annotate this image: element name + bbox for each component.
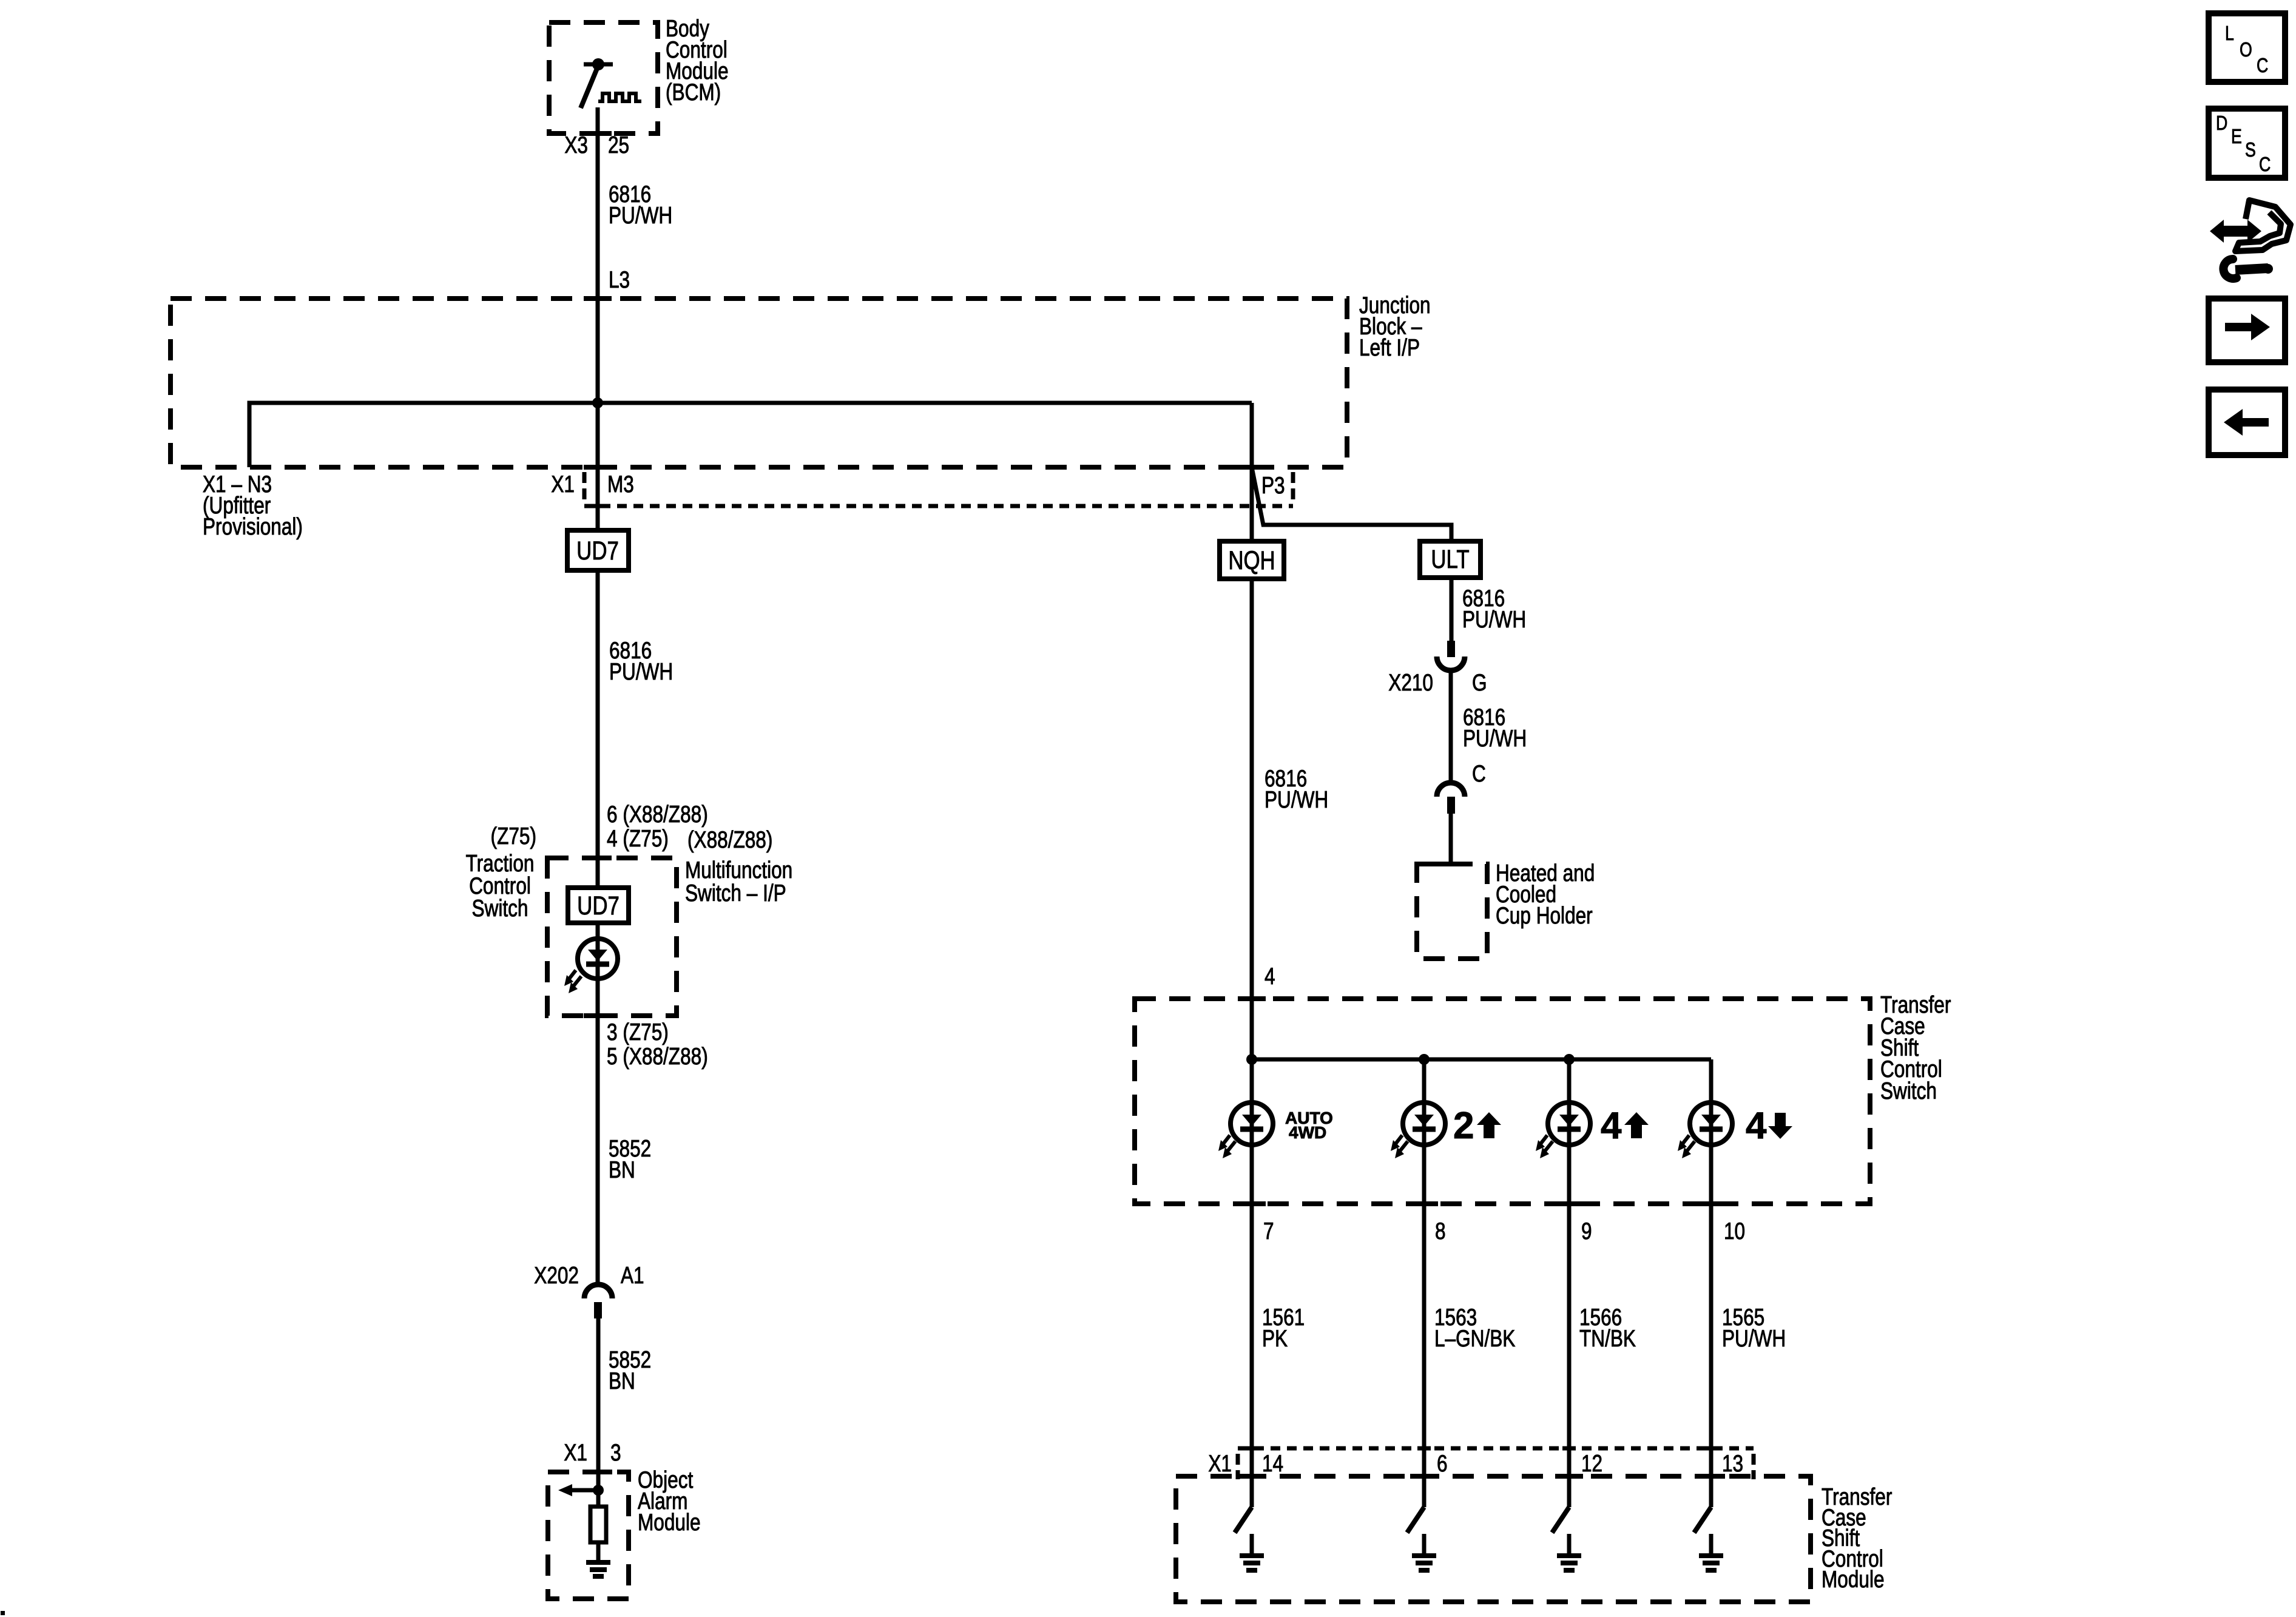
- svg-text:E: E: [2231, 126, 2242, 147]
- svg-text:Module: Module: [638, 1509, 701, 1536]
- svg-text:2: 2: [1453, 1105, 1474, 1147]
- svg-text:6: 6: [1437, 1450, 1448, 1477]
- svg-text:TN/BK: TN/BK: [1579, 1325, 1636, 1352]
- svg-text:4 (Z75): 4 (Z75): [607, 825, 669, 852]
- svg-text:C: C: [2257, 55, 2268, 76]
- svg-text:PU/WH: PU/WH: [1462, 606, 1526, 633]
- svg-text:BN: BN: [609, 1156, 635, 1183]
- svg-text:M3: M3: [607, 471, 634, 498]
- svg-text:6 (X88/Z88): 6 (X88/Z88): [607, 801, 708, 828]
- svg-text:UD7: UD7: [577, 892, 620, 920]
- svg-text:L: L: [2225, 22, 2234, 44]
- svg-text:X3: X3: [564, 132, 588, 158]
- svg-text:Left I/P: Left I/P: [1359, 334, 1420, 361]
- svg-text:Switch – I/P: Switch – I/P: [685, 880, 786, 906]
- svg-text:G: G: [1472, 669, 1487, 696]
- svg-text:3 (Z75): 3 (Z75): [607, 1019, 669, 1045]
- svg-text:(BCM): (BCM): [666, 79, 721, 106]
- svg-text:X1: X1: [551, 471, 575, 498]
- svg-text:25: 25: [608, 132, 629, 158]
- svg-text:13: 13: [1722, 1450, 1743, 1477]
- svg-text:S: S: [2245, 139, 2256, 161]
- svg-text:PU/WH: PU/WH: [609, 202, 672, 229]
- svg-text:X1: X1: [564, 1439, 587, 1466]
- svg-text:5 (X88/Z88): 5 (X88/Z88): [607, 1043, 708, 1070]
- svg-text:O: O: [2240, 39, 2252, 61]
- svg-text:NQH: NQH: [1228, 547, 1275, 575]
- svg-text:PU/WH: PU/WH: [1264, 786, 1328, 813]
- svg-text:Switch: Switch: [1880, 1078, 1937, 1104]
- svg-text:9: 9: [1581, 1218, 1592, 1244]
- svg-text:4WD: 4WD: [1289, 1123, 1326, 1142]
- svg-text:X202: X202: [534, 1262, 579, 1289]
- svg-text:ULT: ULT: [1431, 545, 1469, 574]
- svg-text:L3: L3: [609, 266, 630, 293]
- svg-text:Provisional): Provisional): [203, 513, 303, 540]
- svg-text:14: 14: [1262, 1450, 1283, 1477]
- svg-text:A1: A1: [621, 1262, 644, 1289]
- svg-text:4: 4: [1264, 963, 1275, 990]
- svg-text:Cup Holder: Cup Holder: [1496, 902, 1593, 929]
- svg-text:7: 7: [1263, 1218, 1274, 1244]
- svg-text:10: 10: [1724, 1218, 1745, 1244]
- svg-text:(X88/Z88): (X88/Z88): [687, 826, 772, 853]
- svg-text:X1: X1: [1208, 1450, 1232, 1477]
- svg-text:C: C: [1472, 760, 1486, 787]
- svg-text:4: 4: [1746, 1105, 1767, 1147]
- svg-text:PK: PK: [1262, 1325, 1288, 1352]
- svg-text:3: 3: [610, 1439, 621, 1466]
- svg-text:Switch: Switch: [472, 895, 528, 922]
- svg-text:BN: BN: [609, 1368, 635, 1394]
- svg-text:(Z75): (Z75): [491, 823, 536, 849]
- svg-text:8: 8: [1435, 1218, 1446, 1244]
- svg-text:UD7: UD7: [576, 537, 619, 565]
- svg-text:PU/WH: PU/WH: [609, 658, 673, 685]
- svg-text:X210: X210: [1388, 669, 1433, 696]
- svg-text:P3: P3: [1261, 472, 1285, 499]
- svg-text:Module: Module: [1822, 1566, 1885, 1593]
- svg-text:12: 12: [1581, 1450, 1602, 1477]
- svg-text:C: C: [2259, 154, 2271, 175]
- svg-text:4: 4: [1601, 1105, 1622, 1147]
- svg-text:D: D: [2216, 112, 2227, 134]
- svg-text:L–GN/BK: L–GN/BK: [1434, 1325, 1516, 1352]
- svg-text:PU/WH: PU/WH: [1722, 1325, 1786, 1352]
- svg-text:PU/WH: PU/WH: [1463, 725, 1527, 752]
